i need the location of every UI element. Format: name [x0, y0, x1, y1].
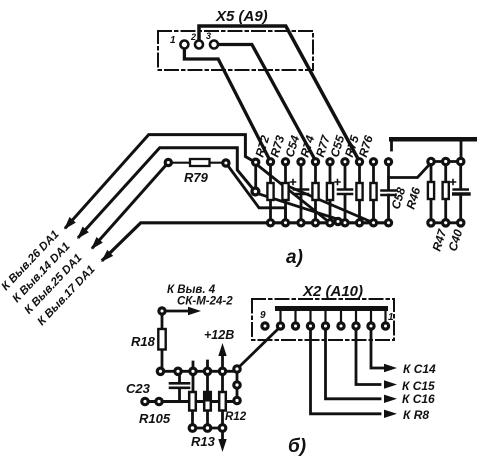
resistor R18	[161, 315, 164, 367]
elbow wire T2 to P2	[79, 148, 254, 237]
top pad row	[267, 159, 391, 165]
arrowhead K Vyv.26	[64, 217, 76, 230]
down arrow	[221, 433, 224, 441]
wire from C58 column to R46 pad	[389, 165, 430, 178]
node P2	[252, 188, 259, 195]
svg-text:К С16: К С16	[402, 392, 435, 406]
svg-text:9: 9	[260, 310, 266, 321]
wire pin to K C16	[326, 330, 381, 399]
svg-text:К Выв. 4: К Выв. 4	[167, 284, 216, 296]
R79 left pad	[165, 159, 171, 165]
resistor R73	[282, 166, 288, 222]
wire middle pin up and right, diagonal to R75 top pad	[199, 26, 360, 162]
capacitor C40	[451, 166, 470, 222]
resistor R74	[312, 166, 318, 222]
svg-text:СК-М-24-2: СК-М-24-2	[177, 296, 233, 308]
wire left pin down right diagonal to R72 top pad	[184, 49, 270, 162]
X2 pins	[262, 323, 389, 329]
stubs bar to pins	[281, 311, 386, 322]
resistor box R105	[189, 392, 196, 411]
pads row wire	[162, 370, 237, 373]
bus left pads	[142, 398, 148, 404]
svg-text:C40: C40	[445, 227, 465, 252]
wire right pin to diagonal to R74 top pad	[218, 45, 316, 162]
node P1 vertical to P2	[254, 166, 257, 188]
resistor R79 horizontal	[172, 162, 225, 164]
svg-text:б): б)	[288, 436, 306, 457]
resistor box R12	[219, 392, 226, 411]
pads row	[157, 368, 225, 374]
capacitor C58	[382, 166, 396, 222]
svg-text:R13: R13	[191, 434, 216, 449]
wire pin to K R8	[311, 330, 381, 414]
resistor R77	[327, 166, 333, 222]
bottom bus b	[145, 400, 233, 403]
resistor R72	[267, 166, 273, 222]
right pads top	[428, 158, 464, 164]
resistor R46	[428, 166, 434, 222]
svg-text:а): а)	[286, 247, 303, 268]
stub from bar	[390, 141, 393, 150]
arrowhead K Vyv.25	[91, 237, 103, 250]
svg-text:1: 1	[388, 312, 394, 323]
right top pads link	[431, 160, 461, 163]
right bottom pads link	[431, 221, 461, 224]
column leads from pads to boxes	[193, 376, 223, 392]
pad chain right	[236, 373, 239, 399]
wire pin to K C15	[356, 330, 380, 385]
resistor R75	[356, 166, 362, 222]
rotated value labels row	[252, 132, 465, 252]
thick bus bar inside X2	[275, 306, 388, 311]
+12V arrow up	[221, 355, 224, 367]
svg-text:3: 3	[206, 31, 211, 41]
svg-text:R79: R79	[184, 170, 209, 185]
bottom pad row	[267, 218, 391, 226]
capacitor C55	[335, 166, 352, 222]
wire W_b crossing P1 to pad330	[258, 166, 330, 223]
wire W_a from R79 right pad to bottom pad	[229, 167, 286, 223]
bottom pads	[189, 425, 226, 432]
svg-text:R105: R105	[139, 411, 171, 426]
svg-text:+12В: +12В	[204, 328, 234, 342]
svg-text:2: 2	[190, 32, 196, 42]
wire W_d long crossing to pad373	[290, 187, 374, 223]
stub bar to C40 pad	[460, 141, 463, 158]
arrowhead K Vyv.17	[101, 250, 113, 262]
bottom bus with left arrow	[103, 223, 389, 260]
diagonal wire to X2 pin	[240, 329, 279, 367]
leads to bottom pads	[193, 412, 223, 425]
right pads bottom	[428, 220, 464, 226]
svg-text:К R8: К R8	[403, 408, 429, 422]
node P1	[253, 159, 259, 165]
resistor R47	[443, 166, 449, 222]
wire pin to K C14	[371, 330, 384, 368]
pin 3 of X5	[210, 41, 218, 49]
stubs above pads	[193, 361, 208, 367]
wire arrow3 to R79 left pad	[93, 163, 168, 248]
capacitor C23	[178, 376, 181, 402]
bottom pads link	[193, 427, 223, 430]
thick top-right bus bar	[389, 137, 477, 142]
svg-text:R46: R46	[403, 185, 423, 210]
arrow right from pad	[166, 310, 188, 313]
svg-text:1: 1	[170, 35, 176, 46]
pin 1 of X5	[180, 41, 188, 49]
capacitor C54	[291, 166, 309, 222]
pin 2 of X5	[195, 41, 203, 49]
wire W_c crossing P2 to pad345	[258, 194, 346, 222]
arrowhead K Vyv.14	[77, 227, 89, 240]
svg-text:К С14: К С14	[403, 362, 436, 376]
pad at R18 top	[159, 308, 165, 314]
resistor box middle	[204, 392, 211, 411]
svg-text:С23: С23	[126, 381, 151, 396]
resistor R76	[370, 166, 376, 222]
R79 right pad	[223, 160, 229, 166]
svg-text:Х5 (А9): Х5 (А9)	[215, 8, 268, 25]
elbow wire T1 to P1	[66, 135, 254, 228]
svg-text:К С15: К С15	[402, 379, 435, 393]
svg-text:R12: R12	[225, 411, 247, 423]
connector X5 dash-dot box	[158, 31, 313, 70]
svg-text:Х2 (А10): Х2 (А10)	[302, 283, 363, 300]
connector X2 dash-dot box	[252, 299, 394, 340]
svg-text:R18: R18	[131, 334, 156, 349]
